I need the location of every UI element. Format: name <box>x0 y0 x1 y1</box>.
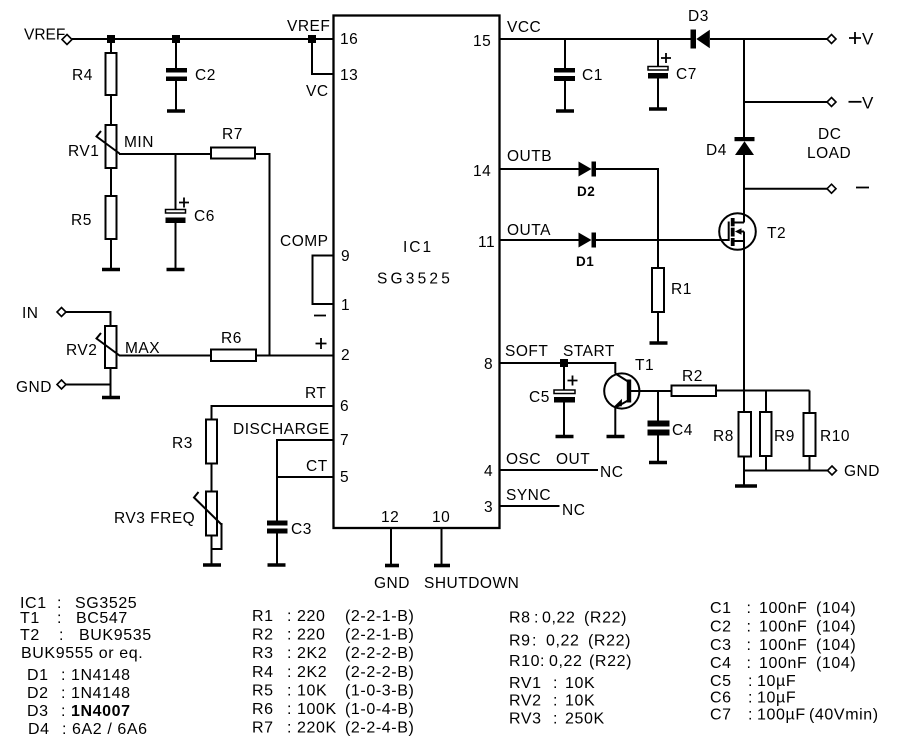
svg-text:250K: 250K <box>565 711 605 728</box>
wire RV1 to R5 <box>110 168 112 196</box>
wire RV2 to ground <box>110 368 112 397</box>
svg-text:(2-2-4-B): (2-2-4-B) <box>345 720 414 737</box>
wire C1 to ground <box>564 81 566 111</box>
svg-text:0,22: 0,22 <box>542 610 576 627</box>
wire T1 base to R2 <box>631 390 672 392</box>
svg-text:C7: C7 <box>710 707 732 724</box>
svg-text:4: 4 <box>484 463 493 480</box>
svg-text:R8: R8 <box>509 610 531 627</box>
wire T1 emitter to ground <box>614 407 616 436</box>
parts list column 4 <box>710 600 879 724</box>
wire pin4 NC <box>500 469 599 471</box>
svg-text:R1: R1 <box>252 608 274 625</box>
diode D4 <box>706 137 755 159</box>
potentiometer RV2 <box>66 326 120 368</box>
svg-text:10K: 10K <box>565 675 595 692</box>
svg-text:START: START <box>563 343 615 360</box>
resistor R5 <box>71 196 117 239</box>
capacitor C1 <box>554 67 603 84</box>
svg-text:VREF: VREF <box>24 27 65 44</box>
svg-text::: : <box>532 633 537 650</box>
svg-text:2K2: 2K2 <box>297 664 327 681</box>
svg-text:R2: R2 <box>682 368 703 385</box>
svg-text:R7: R7 <box>252 720 274 737</box>
wire IN to RV2 <box>66 312 111 326</box>
svg-text::: : <box>747 600 752 617</box>
svg-text:R7: R7 <box>222 126 243 143</box>
parts list column 3 <box>509 610 632 728</box>
svg-text:C3: C3 <box>710 637 732 654</box>
label plus pin2 <box>316 338 327 349</box>
svg-text:RT: RT <box>305 385 326 402</box>
svg-text:16: 16 <box>340 31 358 48</box>
svg-text:R5: R5 <box>71 212 92 229</box>
wire C3 to ground <box>276 534 278 565</box>
svg-text:10µF: 10µF <box>757 690 796 707</box>
ground R1 <box>650 341 668 345</box>
wire D3 to +V <box>710 38 828 40</box>
svg-text:10µF: 10µF <box>757 673 796 690</box>
svg-text:C5: C5 <box>529 389 550 406</box>
wire VREF to R4 <box>110 39 112 53</box>
svg-text::: : <box>748 673 753 690</box>
capacitor C7 <box>648 53 697 83</box>
svg-text:BUK9555 or eq.: BUK9555 or eq. <box>21 645 143 662</box>
svg-text:R5: R5 <box>252 683 274 700</box>
wire C2 branch <box>175 39 177 68</box>
svg-text:GND: GND <box>16 379 52 396</box>
svg-text:C4: C4 <box>672 422 693 439</box>
wire VREF rail to pin 16 <box>72 38 334 40</box>
svg-text:100µF: 100µF <box>757 707 806 724</box>
svg-text:V: V <box>862 94 874 113</box>
svg-text:OUT: OUT <box>556 451 590 468</box>
svg-text:C7: C7 <box>676 66 697 83</box>
svg-text:D3: D3 <box>688 8 709 25</box>
ground C2 <box>167 109 185 113</box>
capacitor C4 <box>648 421 693 440</box>
resistor R10 <box>804 391 850 457</box>
node minus terminal <box>827 184 869 193</box>
wire pin14 to D2 <box>500 168 579 170</box>
svg-text:C2: C2 <box>710 619 732 636</box>
wire VCC rail <box>500 38 692 40</box>
svg-text:C2: C2 <box>195 67 216 84</box>
svg-text:R4: R4 <box>252 664 274 681</box>
wire pin8 to T1 <box>500 363 616 374</box>
svg-text:BUK9535: BUK9535 <box>79 627 152 644</box>
svg-text:(1-0-4-B): (1-0-4-B) <box>345 701 414 718</box>
svg-text::: : <box>62 721 67 738</box>
svg-text::: : <box>287 627 292 644</box>
wire pin12 stub <box>390 528 392 566</box>
wire R1 to ground <box>657 312 659 343</box>
svg-text:D2: D2 <box>577 184 595 199</box>
svg-text:GND: GND <box>844 463 880 480</box>
svg-text:BC547: BC547 <box>76 610 128 627</box>
node GND terminal left <box>16 379 66 396</box>
svg-text:CT: CT <box>306 458 328 475</box>
svg-text:D2: D2 <box>27 685 49 702</box>
ground pin12 GND <box>385 564 399 568</box>
wire R6 to pin2 <box>256 355 334 357</box>
svg-text:3: 3 <box>484 499 493 516</box>
wire R2 to R10 node <box>716 390 810 392</box>
wire pin11 to D1 <box>500 239 579 241</box>
resistor R7 <box>211 126 255 159</box>
node junction C2 <box>172 35 180 43</box>
svg-text:R8: R8 <box>713 428 734 445</box>
svg-text:RV3: RV3 <box>509 711 542 728</box>
svg-text:(2-2-1-B): (2-2-1-B) <box>345 627 414 644</box>
svg-text:R9: R9 <box>509 633 531 650</box>
svg-text:220K: 220K <box>297 720 337 737</box>
svg-text:1: 1 <box>341 297 350 314</box>
svg-text:R6: R6 <box>221 330 242 347</box>
capacitor C5 <box>529 376 578 407</box>
wire C1 branch <box>564 39 566 68</box>
svg-text:RV1: RV1 <box>509 675 542 692</box>
svg-text:RV1: RV1 <box>68 143 99 160</box>
resistor R2 <box>672 368 717 396</box>
svg-text:100nF: 100nF <box>759 637 807 654</box>
svg-text:6A2 / 6A6: 6A2 / 6A6 <box>72 721 148 738</box>
svg-text:(R22): (R22) <box>584 610 627 627</box>
svg-text:14: 14 <box>473 163 491 180</box>
svg-text:(R22): (R22) <box>588 633 631 650</box>
wire R4 to RV1 <box>110 95 112 125</box>
ground C5 <box>556 435 574 439</box>
svg-text:D1: D1 <box>576 254 594 269</box>
transistor T2 MOSFET <box>719 213 786 250</box>
svg-text:C3: C3 <box>291 521 312 538</box>
wire pin6 to R3 <box>212 406 335 420</box>
resistor R9 <box>760 391 795 457</box>
resistor R3 <box>172 420 217 464</box>
diode D3 <box>688 8 710 49</box>
capacitor C6 <box>166 198 215 226</box>
svg-text:R10: R10 <box>509 653 540 670</box>
svg-text:100K: 100K <box>297 701 337 718</box>
svg-text:2K2: 2K2 <box>297 645 327 662</box>
svg-text::: : <box>287 701 292 718</box>
svg-text:0,22: 0,22 <box>549 653 583 670</box>
svg-text:(104): (104) <box>816 655 856 672</box>
resistor R8 <box>713 412 751 457</box>
wire C6 to ground <box>175 223 177 269</box>
wire R3 to RV3 <box>211 464 213 492</box>
ground T1 <box>607 435 625 439</box>
svg-text::: : <box>747 637 752 654</box>
svg-text:10K: 10K <box>297 683 327 700</box>
wire C7 branch <box>657 39 659 67</box>
label DC LOAD <box>807 126 851 162</box>
svg-text:SYNC: SYNC <box>506 487 551 504</box>
svg-text::: : <box>61 667 66 684</box>
wire pin5 <box>277 476 334 478</box>
svg-text:D3: D3 <box>27 703 49 720</box>
svg-text:10K: 10K <box>565 693 595 710</box>
svg-text:GND: GND <box>374 575 410 592</box>
svg-text:R2: R2 <box>252 627 274 644</box>
wire main positive column <box>743 39 745 138</box>
svg-text::: : <box>553 675 558 692</box>
node junction R4 <box>107 35 115 43</box>
svg-text:C1: C1 <box>582 67 603 84</box>
ground C3 <box>268 563 286 567</box>
svg-text:(2-2-2-B): (2-2-2-B) <box>345 645 414 662</box>
wire C7 to ground <box>657 79 659 109</box>
svg-text:DC: DC <box>818 126 841 143</box>
node -V terminal <box>827 94 874 113</box>
svg-text:7: 7 <box>340 432 349 449</box>
ground right <box>735 484 757 488</box>
svg-text:RV2: RV2 <box>66 342 97 359</box>
svg-text:(2-2-1-B): (2-2-1-B) <box>345 608 414 625</box>
wire RV3 to ground <box>211 536 213 565</box>
wire to ground bar right <box>743 471 745 486</box>
svg-text:1N4007: 1N4007 <box>71 703 131 720</box>
node VREF (input terminal) <box>24 27 72 45</box>
wire D1 to T2 gate <box>596 239 729 241</box>
ground pin10 SHUTDOWN <box>434 564 450 568</box>
svg-text:C1: C1 <box>710 600 732 617</box>
svg-text:NC: NC <box>600 464 623 481</box>
svg-text:10: 10 <box>432 509 450 526</box>
svg-text:T2: T2 <box>767 225 786 242</box>
wire D4 to T2 <box>743 155 745 223</box>
svg-text:6: 6 <box>340 398 349 415</box>
wire pin10 stub <box>441 528 443 566</box>
diode D2 <box>577 162 596 200</box>
svg-text::: : <box>553 711 558 728</box>
svg-text::: : <box>534 610 539 627</box>
svg-text:(104): (104) <box>816 600 856 617</box>
svg-text::: : <box>61 703 66 720</box>
wire C2 to ground <box>175 81 177 110</box>
wire pin9 to pin1 loop <box>313 256 335 305</box>
svg-text:T2: T2 <box>20 627 40 644</box>
svg-text:220: 220 <box>297 608 326 625</box>
IC IC1 SG3525 (box and name) <box>334 16 500 529</box>
wire R5 to ground <box>110 239 112 269</box>
svg-text:1N4148: 1N4148 <box>71 685 131 702</box>
svg-text:NC: NC <box>562 502 585 519</box>
svg-text:R3: R3 <box>252 645 274 662</box>
svg-text:RV2: RV2 <box>509 693 542 710</box>
svg-text:R10: R10 <box>820 428 850 445</box>
svg-text:1N4148: 1N4148 <box>71 667 131 684</box>
node GND terminal right <box>828 463 880 480</box>
wire R8 R9 R10 bottoms to GND <box>744 456 828 471</box>
svg-text:IC1: IC1 <box>403 239 433 256</box>
svg-text:(1-0-3-B): (1-0-3-B) <box>345 683 414 700</box>
ground C6 <box>167 268 185 272</box>
wire C6 branch <box>175 154 177 209</box>
svg-text:VC: VC <box>306 83 329 100</box>
ground RV2 <box>102 396 120 400</box>
svg-text:13: 13 <box>340 67 358 84</box>
svg-text:MIN: MIN <box>124 134 154 151</box>
svg-text:D4: D4 <box>706 142 727 159</box>
svg-text:MAX: MAX <box>125 340 160 357</box>
ground C4 <box>649 461 667 465</box>
wire pin3 NC <box>500 505 560 507</box>
ground C7 <box>649 107 667 111</box>
label minus pin1 <box>314 315 326 317</box>
wire R7 to COMP column <box>255 154 270 355</box>
svg-text:2: 2 <box>341 347 350 364</box>
svg-text:OSC: OSC <box>506 451 541 468</box>
parts list column 2 <box>252 608 414 737</box>
svg-text:R4: R4 <box>72 67 93 84</box>
svg-text:(104): (104) <box>816 637 856 654</box>
svg-text:R1: R1 <box>671 281 692 298</box>
wire GND to RV2 bottom <box>66 384 111 386</box>
potentiometer RV1 <box>68 125 120 168</box>
svg-text::: : <box>553 693 558 710</box>
svg-text:(40Vmin): (40Vmin) <box>809 707 879 724</box>
svg-text:11: 11 <box>478 234 495 251</box>
svg-text:15: 15 <box>473 33 491 50</box>
svg-text:VREF: VREF <box>287 18 330 35</box>
ground RV3 <box>203 563 221 567</box>
svg-text:C6: C6 <box>194 208 215 225</box>
svg-text:0,22: 0,22 <box>546 633 580 650</box>
svg-text:8: 8 <box>484 356 493 373</box>
diode D1 <box>576 233 596 270</box>
svg-text::: : <box>540 653 545 670</box>
svg-text:SOFT: SOFT <box>505 343 548 360</box>
svg-text:IN: IN <box>22 305 39 322</box>
svg-text:(2-2-2-B): (2-2-2-B) <box>345 664 414 681</box>
svg-text:C5: C5 <box>710 673 732 690</box>
wire T2 source to R8 <box>743 241 745 412</box>
node IN terminal <box>22 305 66 322</box>
svg-text::: : <box>59 627 64 644</box>
wire C4 branch <box>657 391 659 421</box>
potentiometer RV3 <box>114 492 222 550</box>
svg-text:T1: T1 <box>635 357 654 374</box>
wire MIN node to R7 <box>119 153 211 155</box>
svg-text::: : <box>287 720 292 737</box>
svg-text:SG3525: SG3525 <box>377 271 453 288</box>
svg-text::: : <box>748 707 753 724</box>
svg-text:C6: C6 <box>710 690 732 707</box>
svg-text:220: 220 <box>297 627 326 644</box>
svg-text:VCC: VCC <box>507 19 541 36</box>
svg-text:OUTA: OUTA <box>507 222 551 239</box>
svg-text::: : <box>287 608 292 625</box>
svg-text:D4: D4 <box>28 721 50 738</box>
svg-text:SHUTDOWN: SHUTDOWN <box>424 575 519 592</box>
svg-text:12: 12 <box>381 509 399 526</box>
svg-text::: : <box>747 655 752 672</box>
svg-text::: : <box>57 610 62 627</box>
svg-text:D1: D1 <box>27 667 49 684</box>
svg-text:T1: T1 <box>20 610 40 627</box>
svg-text:100nF: 100nF <box>759 655 807 672</box>
svg-text:LOAD: LOAD <box>807 145 851 162</box>
label SOFT START <box>505 343 615 360</box>
svg-text::: : <box>747 619 752 636</box>
svg-text:R6: R6 <box>252 701 274 718</box>
label OSC OUT <box>506 451 590 468</box>
svg-text:COMP: COMP <box>280 233 329 250</box>
resistor R6 <box>211 330 256 361</box>
svg-text::: : <box>287 664 292 681</box>
wire pin13 branch <box>312 43 334 74</box>
svg-text:5: 5 <box>340 469 349 486</box>
capacitor C3 <box>267 521 312 539</box>
wire C5 branch <box>563 367 565 390</box>
svg-text:C4: C4 <box>710 655 732 672</box>
node junction VREF/pin13 <box>308 35 316 43</box>
svg-text::: : <box>287 683 292 700</box>
transistor T1 BC547 <box>604 357 654 409</box>
node +V terminal <box>827 30 874 49</box>
svg-text:V: V <box>862 30 874 49</box>
wire minus load tap <box>744 188 827 190</box>
wire C5 to ground <box>563 403 565 437</box>
svg-text:R3: R3 <box>172 435 193 452</box>
svg-text::: : <box>748 690 753 707</box>
svg-text:R9: R9 <box>774 428 795 445</box>
svg-text:100nF: 100nF <box>759 619 807 636</box>
wire C4 to ground <box>657 436 659 463</box>
svg-text:9: 9 <box>341 248 350 265</box>
ground R5 <box>102 268 120 272</box>
svg-text:100nF: 100nF <box>759 600 807 617</box>
node junction C5 <box>560 359 568 367</box>
svg-text:(R22): (R22) <box>589 653 632 670</box>
capacitor C2 <box>166 67 216 84</box>
resistor R4 <box>72 53 117 95</box>
wire D2 to output column <box>596 169 658 268</box>
svg-text:OUTB: OUTB <box>507 148 552 165</box>
wire pin7 to CT column <box>277 440 334 521</box>
wire MAX node to R6 <box>119 355 211 357</box>
svg-text:DISCHARGE: DISCHARGE <box>233 421 330 438</box>
svg-text:(104): (104) <box>816 619 856 636</box>
resistor R1 <box>652 268 692 312</box>
svg-text:RV3 FREQ: RV3 FREQ <box>114 510 195 527</box>
ground C1 <box>556 109 574 113</box>
svg-text::: : <box>287 645 292 662</box>
wire -V tap <box>744 101 829 103</box>
svg-text::: : <box>61 685 66 702</box>
parts list column 1 <box>20 595 152 738</box>
